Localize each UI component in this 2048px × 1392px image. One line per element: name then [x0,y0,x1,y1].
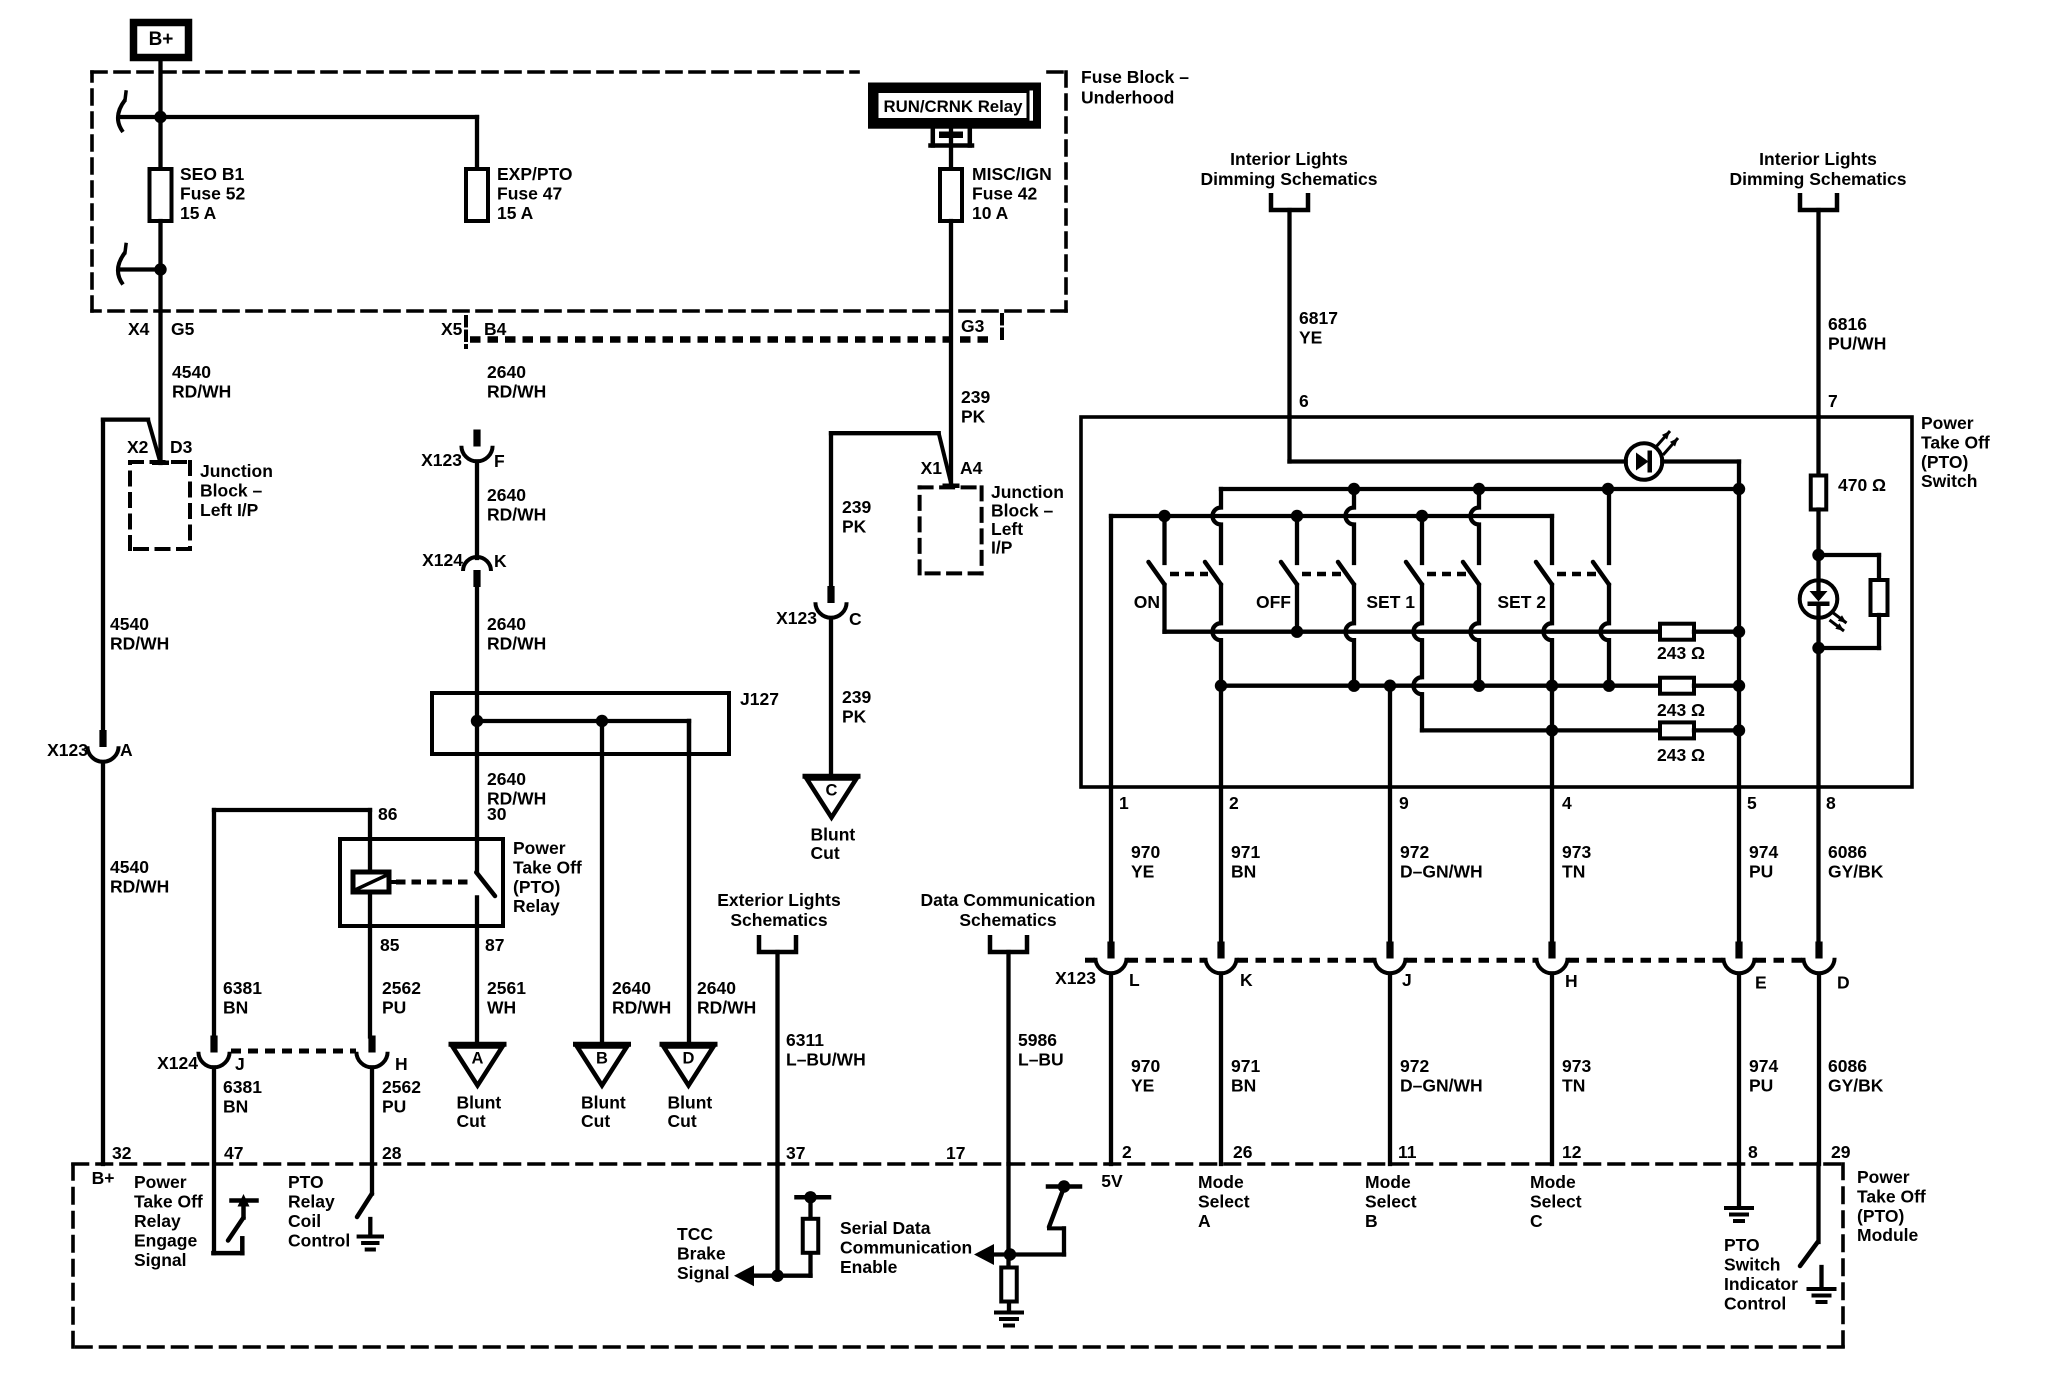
right bus vertical [1737,462,1741,943]
blunt cut D [662,1042,715,1047]
wire 17 to pulldown resistor and ground [1006,1164,1010,1267]
svg-text:972: 972 [1400,842,1429,862]
svg-text:30: 30 [487,804,507,824]
module pin 8 ground [1737,1164,1741,1207]
wire pin9 from row D [1388,686,1392,943]
resistor 243 ohm 3 [1660,722,1694,738]
svg-text:4540: 4540 [110,614,149,634]
svg-text:B+: B+ [92,1168,115,1188]
switch row B bus 5V [1111,514,1552,518]
svg-text:PK: PK [961,406,986,426]
wire 239 to blunt C [829,618,833,773]
svg-text:BN: BN [223,1096,248,1116]
svg-text:RD/WH: RD/WH [110,633,169,653]
junction block X1 A4 entry [943,484,960,489]
wire 239 PK left branch [831,431,939,435]
svg-text:PTO: PTO [1724,1235,1760,1255]
svg-text:Control: Control [1724,1294,1786,1314]
svg-text:L: L [1129,970,1140,990]
svg-text:2: 2 [1122,1142,1132,1162]
svg-text:A4: A4 [960,458,983,478]
svg-text:243 Ω: 243 Ω [1657,745,1705,765]
svg-text:7: 7 [1828,391,1838,411]
svg-text:Fuse Block –: Fuse Block – [1081,67,1189,87]
svg-text:Left I/P: Left I/P [200,500,259,520]
SET 2 switch right pole [1607,489,1611,563]
svg-text:5986: 5986 [1018,1030,1057,1050]
svg-text:PU: PU [1749,1075,1773,1095]
SET 2 linkage [1557,572,1596,577]
svg-text:Switch: Switch [1724,1255,1780,1275]
svg-text:Signal: Signal [134,1250,187,1270]
svg-text:6381: 6381 [223,1077,262,1097]
svg-text:5: 5 [1747,793,1757,813]
connector tick at X5 [464,317,468,347]
underhood connector dotted boundary [470,336,989,343]
wire 7 dimming input with 470 ohm [1816,417,1820,476]
J127 internal bus [477,719,689,723]
svg-text:Exterior Lights: Exterior Lights [717,890,841,910]
svg-text:J127: J127 [740,689,779,709]
resistor 243 ohm 2 [1660,678,1694,694]
svg-text:GY/BK: GY/BK [1828,861,1884,881]
PTO relay box [340,839,503,926]
svg-text:D–GN/WH: D–GN/WH [1400,1075,1483,1095]
svg-text:D: D [1837,973,1850,993]
svg-text:Signal: Signal [677,1263,730,1283]
svg-text:4540: 4540 [110,857,149,877]
svg-text:B: B [596,1050,608,1068]
svg-text:Mode: Mode [1365,1172,1411,1192]
svg-text:C: C [849,609,862,629]
svg-text:Serial Data: Serial Data [840,1218,931,1238]
svg-text:D3: D3 [170,437,193,457]
resistor 243 ohm 1 [1660,624,1694,640]
svg-text:GY/BK: GY/BK [1828,1075,1884,1095]
svg-text:Power: Power [134,1172,187,1192]
svg-text:PU: PU [1749,861,1773,881]
svg-text:29: 29 [1831,1142,1851,1162]
svg-text:2640: 2640 [487,362,526,382]
svg-text:Fuse 47: Fuse 47 [497,183,562,203]
svg-text:B+: B+ [149,29,174,50]
wires connector row to module [1109,974,1113,1165]
svg-text:2: 2 [1229,793,1239,813]
svg-text:2562: 2562 [382,1077,421,1097]
svg-text:239: 239 [842,687,871,707]
svg-text:X5: X5 [441,319,463,339]
svg-text:PK: PK [842,516,867,536]
OFF switch linkage [1302,572,1341,577]
wire LED to right bus [1662,459,1739,463]
svg-text:TN: TN [1562,861,1585,881]
svg-text:970: 970 [1131,842,1160,862]
svg-text:C: C [826,782,838,800]
connector X124 K [463,557,491,571]
wire 6381 to module pin 47 [212,1068,216,1254]
svg-text:C: C [1530,1211,1543,1231]
wire 6817 YE [1287,210,1291,417]
SET 1 switch left pole [1420,516,1424,563]
switch row D to resistor 2 [1221,684,1660,688]
svg-text:X123: X123 [47,740,88,760]
branch node to EXP/PTO fuse [154,111,166,123]
svg-text:RD/WH: RD/WH [172,381,231,401]
svg-text:K: K [1240,970,1253,990]
svg-text:TN: TN [1562,1075,1585,1095]
connector X123 L [1107,942,1114,959]
svg-text:Coil: Coil [288,1211,321,1231]
svg-text:(PTO): (PTO) [1857,1206,1904,1226]
Power Take Off PTO Switch box [1081,417,1912,787]
OFF switch left pole [1295,516,1299,563]
wire 2640 to blunt D [687,721,691,754]
svg-text:12: 12 [1562,1142,1582,1162]
svg-text:X1: X1 [921,458,943,478]
ON switch right pole [1219,489,1223,508]
svg-text:6086: 6086 [1828,842,1867,862]
svg-text:Blunt: Blunt [811,825,856,845]
svg-text:239: 239 [842,497,871,517]
svg-text:G3: G3 [961,316,985,336]
jog wire to left branch [103,417,148,421]
pull-up resistor TCC [803,1219,819,1253]
ON switch left pole [1162,516,1166,563]
svg-text:2640: 2640 [697,978,736,998]
svg-text:10 A: 10 A [972,203,1009,223]
connector X123 D [1815,942,1822,959]
svg-text:2561: 2561 [487,978,526,998]
svg-text:Data Communication: Data Communication [920,890,1095,910]
Power Take Off PTO Module dashed box [73,1162,1843,1166]
svg-text:Select: Select [1198,1192,1250,1212]
svg-text:PTO: PTO [288,1172,324,1192]
svg-text:E: E [1755,973,1767,993]
wire LED to pin 8 [1816,604,1820,648]
svg-text:SET 1: SET 1 [1366,592,1415,612]
wire 2562 to module pin 28 [370,1068,374,1194]
svg-text:973: 973 [1562,842,1591,862]
svg-text:972: 972 [1400,1056,1429,1076]
wire fuse42 down to G3 exit [949,221,953,486]
dashed link X124 J-H [231,1049,356,1054]
wire 2640 between connectors [475,462,479,559]
svg-text:32: 32 [112,1143,132,1163]
svg-text:Relay: Relay [288,1192,335,1212]
coil control switch to ground [357,1194,372,1218]
svg-text:RD/WH: RD/WH [487,381,546,401]
svg-text:11: 11 [1398,1142,1417,1162]
svg-text:Left: Left [991,519,1023,539]
svg-text:971: 971 [1231,842,1260,862]
svg-text:Junction: Junction [991,482,1064,502]
svg-text:2640: 2640 [612,978,651,998]
svg-text:RD/WH: RD/WH [487,633,546,653]
SET 2 switch left pole [1550,516,1554,563]
fuse symbol at x=160.5 [150,169,172,221]
svg-text:Interior Lights: Interior Lights [1230,149,1348,169]
wire relay to fuse 42 [949,129,953,169]
ground symbol serial data [996,1311,1022,1315]
svg-text:Module: Module [1857,1225,1919,1245]
svg-text:470 Ω: 470 Ω [1838,475,1886,495]
svg-text:(PTO): (PTO) [1921,452,1968,472]
svg-text:Select: Select [1530,1192,1582,1212]
svg-text:Cut: Cut [668,1111,697,1131]
svg-text:I/P: I/P [991,538,1013,558]
connector tick at G3 [1000,315,1004,344]
svg-text:Cut: Cut [581,1111,610,1131]
svg-text:Take Off: Take Off [1921,432,1990,452]
svg-text:MISC/IGN: MISC/IGN [972,164,1052,184]
svg-text:G5: G5 [171,319,195,339]
wire branch to fuse 47 [119,115,478,119]
svg-text:K: K [494,551,507,571]
svg-text:239: 239 [961,387,990,407]
svg-text:2640: 2640 [487,769,526,789]
svg-text:RD/WH: RD/WH [110,876,169,896]
svg-text:28: 28 [382,1143,402,1163]
svg-text:Fuse 42: Fuse 42 [972,183,1037,203]
svg-text:Mode: Mode [1530,1172,1576,1192]
junction block J127 [432,693,729,754]
svg-text:Block –: Block – [991,501,1054,521]
wire pin1 down from row B [1109,516,1113,943]
svg-text:Schematics: Schematics [730,910,828,930]
wire 6816 PU/WH [1816,210,1820,417]
relay output terminal symbol [931,128,936,146]
svg-text:SET 2: SET 2 [1497,592,1546,612]
Junction Block 2 dashed box [920,485,982,489]
svg-text:X124: X124 [422,550,463,570]
connector X124 J [210,1036,217,1053]
connector X123 C [827,586,834,603]
svg-text:5V: 5V [1101,1171,1123,1191]
wire 4540 to module [101,762,105,1164]
svg-text:BN: BN [1231,861,1256,881]
svg-text:BN: BN [223,997,248,1017]
wire 4540 down left side [101,420,105,731]
connector X123 H [1548,942,1555,959]
svg-text:Take Off: Take Off [513,857,582,877]
svg-text:6: 6 [1299,391,1309,411]
svg-text:H: H [395,1054,408,1074]
svg-text:Schematics: Schematics [959,910,1057,930]
fuse EXP/PTO Fuse 47 15A [475,117,479,169]
svg-text:Enable: Enable [840,1257,898,1277]
svg-text:TCC: TCC [677,1224,713,1244]
svg-text:X123: X123 [776,608,817,628]
svg-text:8: 8 [1826,793,1836,813]
connector X123 E [1735,942,1742,959]
svg-text:Dimming Schematics: Dimming Schematics [1201,169,1378,189]
svg-text:(PTO): (PTO) [513,877,560,897]
svg-text:6086: 6086 [1828,1056,1867,1076]
svg-text:Cut: Cut [457,1111,486,1131]
svg-text:RD/WH: RD/WH [487,504,546,524]
blunt cut B [576,1042,629,1047]
svg-text:2640: 2640 [487,485,526,505]
svg-text:OFF: OFF [1256,592,1291,612]
wire 6381 BN to X124 J [212,810,216,1037]
svg-text:H: H [1565,971,1578,991]
ON switch linkage [1170,572,1208,577]
svg-text:Cut: Cut [811,843,840,863]
svg-text:Mode: Mode [1198,1172,1244,1192]
blunt cut C [805,774,858,779]
svg-text:Brake: Brake [677,1244,726,1264]
parallel resistor branch [1819,553,1880,557]
svg-text:243 Ω: 243 Ω [1657,700,1705,720]
svg-text:J: J [235,1054,245,1074]
switch row E to resistor 3 [1422,728,1660,732]
relay pin 85 wire [368,892,372,1037]
svg-text:RUN/CRNK Relay: RUN/CRNK Relay [884,97,1024,116]
svg-text:Engage: Engage [134,1231,197,1251]
connector X123 K [1217,942,1224,959]
svg-text:973: 973 [1562,1056,1591,1076]
svg-text:F: F [494,451,505,471]
connector X124 H [368,1036,375,1053]
svg-text:6381: 6381 [223,978,262,998]
svg-text:2562: 2562 [382,978,421,998]
svg-text:17: 17 [946,1143,965,1163]
svg-text:X124: X124 [157,1053,198,1073]
svg-text:26: 26 [1233,1142,1253,1162]
PTO switch illumination LED [1800,580,1838,618]
wire 2640 down to J127 [475,587,479,721]
svg-text:Take Off: Take Off [134,1192,203,1212]
LED indicator diode top [1626,443,1663,480]
svg-text:X2: X2 [127,437,149,457]
svg-text:Indicator: Indicator [1724,1274,1798,1294]
svg-text:4540: 4540 [172,362,211,382]
svg-text:YE: YE [1131,861,1154,881]
svg-text:Blunt: Blunt [457,1093,502,1113]
svg-text:B: B [1365,1211,1378,1231]
svg-text:971: 971 [1231,1056,1260,1076]
connector X123 A [99,730,106,747]
svg-text:Blunt: Blunt [668,1093,713,1113]
svg-text:Junction: Junction [200,461,273,481]
svg-text:X4: X4 [128,319,150,339]
Junction Block - Left I/P dashed box [130,460,190,464]
svg-text:974: 974 [1749,1056,1778,1076]
wire fuse52 to X4 exit [158,221,162,463]
svg-text:1: 1 [1119,793,1129,813]
PTO indicator control switch to ground [1816,1164,1820,1242]
wire 2640 to blunt B [600,721,604,1044]
svg-text:RD/WH: RD/WH [697,997,756,1017]
svg-text:6816: 6816 [1828,314,1867,334]
svg-text:2640: 2640 [487,614,526,634]
SET 1 linkage [1427,572,1466,577]
svg-text:87: 87 [485,935,504,955]
svg-text:PU: PU [382,997,406,1017]
svg-text:L–BU/WH: L–BU/WH [786,1049,866,1069]
relay switch blade [476,872,495,896]
RUN/CRNK Relay box [872,87,1037,125]
wire 5986 to module [1006,952,1010,1164]
svg-text:Control: Control [288,1231,350,1251]
connector X123 J [1386,942,1393,959]
svg-text:WH: WH [487,997,516,1017]
relay linkage dashed [396,880,472,885]
svg-text:YE: YE [1299,327,1322,347]
svg-text:Take Off: Take Off [1857,1186,1926,1206]
svg-text:J: J [1402,970,1412,990]
svg-text:85: 85 [380,935,400,955]
svg-text:D–GN/WH: D–GN/WH [1400,861,1483,881]
svg-text:4: 4 [1562,793,1572,813]
svg-text:L–BU: L–BU [1018,1049,1064,1069]
SET 1 switch right pole [1477,489,1481,508]
svg-text:86: 86 [378,804,398,824]
fuse symbol at x=951 [940,169,962,221]
svg-text:Interior Lights: Interior Lights [1759,149,1877,169]
svg-text:Relay: Relay [134,1211,181,1231]
svg-text:PU: PU [382,1096,406,1116]
svg-text:D: D [683,1050,695,1068]
svg-text:Communication: Communication [840,1238,972,1258]
svg-text:9: 9 [1399,793,1409,813]
svg-text:RD/WH: RD/WH [612,997,671,1017]
svg-text:A: A [120,740,133,760]
svg-text:Fuse 52: Fuse 52 [180,183,245,203]
Fuse Block - Underhood dashed box [92,70,858,74]
svg-text:BN: BN [1231,1075,1256,1095]
wire B+ down into fuse block [158,60,162,169]
svg-text:ON: ON [1134,592,1160,612]
splice curl symbol [118,100,125,132]
battery B+ terminal box [134,23,189,58]
switch row C to resistor 1 [1165,630,1661,634]
svg-text:Switch: Switch [1921,471,1977,491]
connector X123 F [473,430,480,447]
ground symbol coil control [359,1235,382,1239]
svg-text:Underhood: Underhood [1081,88,1174,108]
svg-text:6311: 6311 [786,1030,824,1050]
svg-text:243 Ω: 243 Ω [1657,643,1705,663]
svg-text:Power: Power [1921,413,1974,433]
svg-text:Power: Power [513,838,566,858]
svg-text:974: 974 [1749,842,1778,862]
X123 inline connector row dashed boundary [1085,958,1095,963]
svg-text:X123: X123 [421,450,462,470]
svg-text:A: A [1198,1211,1211,1231]
wire 6311 to module [775,952,779,1164]
svg-text:Relay: Relay [513,896,560,916]
svg-text:Select: Select [1365,1192,1417,1212]
svg-text:37: 37 [786,1143,805,1163]
svg-text:970: 970 [1131,1056,1160,1076]
relay engage switch inside module [232,1198,257,1203]
svg-text:Power: Power [1857,1167,1910,1187]
svg-text:Dimming Schematics: Dimming Schematics [1730,169,1907,189]
svg-text:PU/WH: PU/WH [1828,333,1886,353]
svg-text:47: 47 [224,1143,243,1163]
svg-text:15 A: 15 A [180,203,217,223]
wire 6 inside switch to LED [1287,417,1291,462]
wire into junction block D3 with entry tick [152,461,169,466]
svg-text:Block –: Block – [200,480,263,500]
svg-text:15 A: 15 A [497,203,534,223]
OFF switch right pole [1352,489,1356,508]
svg-text:X123: X123 [1055,968,1096,988]
svg-text:YE: YE [1131,1075,1154,1095]
svg-text:PK: PK [842,706,867,726]
stub with curl symbol [119,267,161,271]
